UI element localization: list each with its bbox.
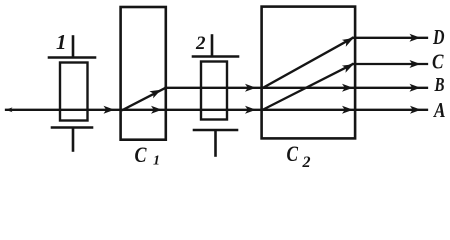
svg-text:C: C (135, 142, 147, 167)
svg-text:C: C (432, 49, 444, 73)
modulator 1 bottom lead (72, 129, 75, 151)
modulator 1 top lead (72, 37, 75, 58)
modulator 2 body (201, 62, 227, 120)
modulator 1 top plate (49, 56, 95, 59)
arrowhead on C2 lower diagonal at C (342, 64, 354, 73)
svg-text:C: C (287, 141, 299, 166)
svg-text:2: 2 (195, 33, 206, 54)
modulator 2 bottom lead (214, 131, 217, 156)
arrowhead input start blob (6, 107, 13, 112)
arrowhead on C1 diagonal (149, 90, 161, 99)
svg-text:B: B (434, 74, 445, 96)
svg-text:A: A (432, 98, 445, 122)
modulator 2 bottom plate (194, 129, 237, 132)
wire beam C (output) (353, 63, 427, 65)
modulator 1 bottom plate (52, 126, 92, 129)
wire beam A (input horizontal beam running full width) (6, 109, 427, 111)
arrowhead on beam D output (410, 34, 421, 42)
arrowhead on beam A before C1 (104, 106, 115, 114)
arrowhead on beam A before C2 (245, 106, 256, 114)
modulator 1 body (60, 63, 88, 121)
svg-text:1: 1 (56, 30, 67, 54)
svg-text:2: 2 (302, 154, 311, 171)
arrowhead on beam C output (410, 60, 421, 68)
arrowhead on C2 upper diagonal at D (342, 38, 354, 47)
wire beam D (output) (353, 37, 427, 39)
svg-text:D: D (432, 25, 444, 49)
wire diagonal in C1 (beam split up to B level) (123, 88, 167, 110)
arrowhead on beam B output (410, 84, 421, 92)
modulator 2 top plate (193, 55, 238, 58)
wire diagonal in C2 lower (A level up to C level) (263, 64, 353, 109)
svg-text:1: 1 (153, 154, 160, 169)
cell C2 box (262, 7, 356, 139)
arrowhead on beam A output (410, 106, 421, 114)
cell C1 box (121, 7, 166, 140)
wire beam B (upper horizontal beam from C1 to output) (166, 87, 428, 89)
arrowhead on beam B before C2 (245, 84, 256, 92)
modulator 2 top lead (211, 36, 214, 57)
arrowhead on beam B inside C2 (342, 84, 353, 92)
wire diagonal in C2 upper (B level up to D level) (263, 38, 353, 88)
arrowhead on beam A inside C2 (342, 106, 353, 114)
arrowhead on beam A inside C1 (151, 106, 162, 114)
